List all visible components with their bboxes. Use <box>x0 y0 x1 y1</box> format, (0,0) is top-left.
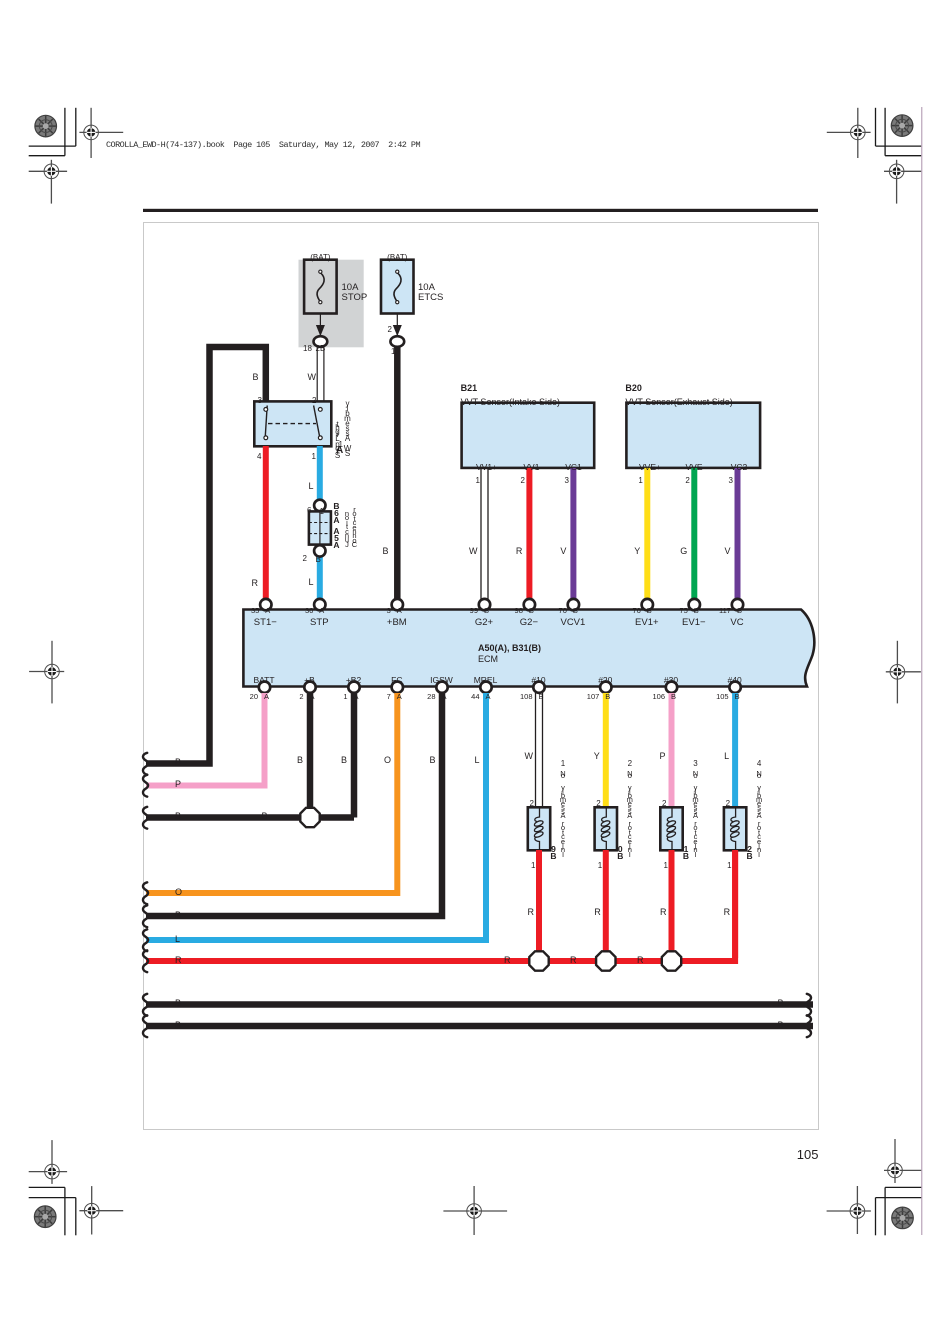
injector 2 pin 2 <box>596 800 600 809</box>
wire color label W <box>308 373 317 383</box>
ECM top pin ring STP <box>314 599 325 610</box>
wire color label B (+BM wire) <box>382 547 388 557</box>
wire L ECM to injector 4 <box>732 693 738 807</box>
ECM bottom pin number 7 <box>387 693 391 701</box>
splice octagon injector 3 <box>662 951 681 970</box>
registration mark top-right B <box>884 160 921 204</box>
injector 3 label Assembly (vertical) <box>692 786 698 818</box>
wire color label W (B21) <box>469 547 478 557</box>
ECM top pin letter B (G2+) <box>484 607 489 615</box>
wire Y B20 pin 1 <box>644 468 650 600</box>
wire color label R (bus 1) <box>504 956 511 966</box>
ECM top pin number 117 (VC) <box>719 607 731 615</box>
ECM bottom pin number 2 <box>299 693 303 701</box>
switch pin 2 <box>312 397 316 406</box>
pin number 2 (B21) <box>520 477 524 486</box>
wire B splice bus to left edge (black) <box>146 814 354 821</box>
injector 2 label Assembly (vertical) <box>627 786 633 818</box>
wire color label O (left edge) <box>175 888 182 898</box>
ECM signal name G2&#8722; <box>520 618 538 628</box>
wire color label B (+B wire) <box>297 756 303 766</box>
wire color label L (injector 4 feed) <box>724 752 729 762</box>
wire color label B (bus lower right) <box>778 1021 784 1031</box>
injector 3 label No. <box>693 773 698 777</box>
wire color label R (left edge) <box>175 956 182 966</box>
wire R injector common bus (red) <box>146 850 735 961</box>
ECM bottom pin letter A <box>485 693 490 701</box>
ECM bottom pin number 1 <box>343 693 347 701</box>
injector 4 coil symbol <box>730 808 740 850</box>
B21 pin name VV1 <box>523 463 539 472</box>
wire B ECM IGSW to left edge (black) <box>146 693 442 916</box>
continuation arc left (switch feed B) <box>143 753 148 775</box>
injector 2 number label <box>628 762 632 766</box>
label 10A STOP <box>342 283 368 304</box>
label (BAT) for STOP fuse <box>310 254 330 263</box>
junction connector pin 2 <box>303 555 307 564</box>
wire R switch to ECM ST1- (red) <box>263 446 269 600</box>
injector 1 pin 1 <box>531 862 535 871</box>
title rule <box>143 209 818 212</box>
connector code 1 (switch) <box>339 441 343 450</box>
ECM bottom pin name +B2 <box>346 676 361 685</box>
ECM bottom pin letter B <box>735 693 740 701</box>
header file info text <box>106 141 420 150</box>
wire R injector 2 to splice (red) <box>603 850 609 953</box>
ECM bottom pin number 20 <box>250 693 258 701</box>
wire color label B (switch feed left) <box>175 758 181 768</box>
injector 1 number label <box>561 762 565 766</box>
wire color label W (injector 1 feed) <box>525 752 534 762</box>
junction connector code A5A (vertical bold) <box>333 528 339 550</box>
ECM top pin ring EV1&#8722; <box>689 599 700 610</box>
B20 sensor body <box>626 403 760 468</box>
wire V B20 pin 3 <box>735 468 741 600</box>
ECM bottom pin letter B <box>538 693 543 701</box>
ECM bottom pin ring #10 <box>533 682 544 693</box>
ECM top pin ring VCV1 <box>568 599 579 610</box>
ECM top pin ring G2&#8722; <box>524 599 535 610</box>
wire B from ETCS to ECM +BM (black) <box>394 347 401 600</box>
splice octagon injector 1 <box>529 951 548 970</box>
pin number 1 (B21) <box>476 477 480 486</box>
ECM signal name EV1+ <box>635 618 659 628</box>
ECM top pin ring EV1+ <box>642 599 653 610</box>
ECM top pin number 3 (+BM) <box>387 607 391 615</box>
switch blade right <box>314 406 320 438</box>
registration mark bottom-right B <box>884 1139 921 1183</box>
ECM top pin number 36 (STP) <box>305 607 313 615</box>
label Junction (vertical) <box>345 512 349 547</box>
ECM bottom pin ring BATT <box>259 682 270 693</box>
continuation arc right (ground bus lower) <box>806 1015 811 1037</box>
printer colour control dot top-left <box>35 115 57 137</box>
trim marks bottom-left <box>29 1187 76 1235</box>
wire W B21 pin 1 (white) <box>481 468 488 600</box>
trim marks bottom-right <box>876 1187 922 1235</box>
arrowhead ETCS fuse output <box>393 325 402 336</box>
ECM name label <box>478 655 498 665</box>
ECM bottom pin number 107 <box>587 693 600 701</box>
injector 4 connector code B2 (vertical bold) <box>747 846 753 859</box>
ECM bottom pin ring MREL <box>480 682 491 693</box>
wire color label B (left edge IGSW) <box>175 911 181 921</box>
component name Stop Light (vertical) <box>335 423 340 457</box>
wire color label B (at splice) <box>261 812 267 822</box>
continuation arc left (ground bus upper) <box>143 994 148 1016</box>
ECM top pin number 35 (ST1&#8722;) <box>251 607 259 615</box>
ECM bottom pin letter A <box>441 693 446 701</box>
B20 pin name VVE <box>685 463 702 472</box>
registration mark right-center <box>886 641 921 704</box>
ECM bottom pin number 106 <box>652 693 665 701</box>
switch pin circles <box>264 408 322 440</box>
wire color label Y (injector 2 feed) <box>594 752 600 762</box>
continuation arc left (ground bus lower) <box>143 1015 148 1037</box>
ECM bottom pin name BATT <box>253 676 274 685</box>
ECM bottom pin number 44 <box>471 693 479 701</box>
wire L switch to junction connector (blue) <box>317 446 323 500</box>
wire B stop light switch feed (black) <box>146 347 266 764</box>
gray backdrop behind STOP fuse <box>299 260 364 348</box>
injector 4 label No. <box>756 773 761 777</box>
ECM signal name G2+ <box>475 618 493 628</box>
wire color label V (B20) <box>724 547 730 557</box>
ECM top pin ring VC <box>732 599 743 610</box>
B20 code label <box>625 384 642 394</box>
trim marks top-right <box>876 108 922 156</box>
switch linkage dashed line <box>268 423 316 425</box>
ECM bottom pin ring FC <box>392 682 403 693</box>
wire color label B (bus lower left) <box>175 1021 181 1031</box>
registration mark top-left B <box>29 160 67 204</box>
wire color label B (left edge bus) <box>175 812 181 822</box>
B20 pin name VC2 <box>731 463 748 472</box>
ECM bottom pin number 105 <box>716 693 729 701</box>
injector 2 connector code B0 (vertical bold) <box>617 846 623 859</box>
continuation arc left (MREL L) <box>143 929 148 951</box>
ECM bottom pin ring #30 <box>666 682 677 693</box>
wire R injector 3 to splice (red) <box>669 850 675 953</box>
fuse ETCS 10A <box>381 260 414 314</box>
ECM bottom pin number 28 <box>427 693 435 701</box>
injector 1 label Assembly (vertical) <box>560 786 566 818</box>
wire W stop fuse to switch (white, outline) <box>317 347 324 402</box>
splice octagon injector 2 <box>596 951 615 970</box>
B21 name label <box>461 398 560 408</box>
ECM top pin letter A (+BM) <box>397 607 402 615</box>
wire color label R (bus 3) <box>637 956 644 966</box>
continuation arc left (IGSW B) <box>143 905 148 927</box>
ECM top pin number 98 (G2&#8722;) <box>515 607 523 615</box>
pin label 18 <box>303 345 312 354</box>
pin label 1 at ETCS oval <box>391 348 395 357</box>
wire color label B (IGSW wire) <box>429 756 435 766</box>
wire color label L (upper STP) <box>308 482 313 492</box>
label Connector (vertical) <box>352 508 357 548</box>
B21 pin name VV1+ <box>476 463 497 472</box>
continuation arc right (ground bus upper) <box>806 994 811 1016</box>
pin label 2B <box>316 345 326 354</box>
ECM bottom pin number 108 <box>520 693 533 701</box>
ECM top pin number 75 (EV1&#8722;) <box>679 607 687 615</box>
injector 3 number label <box>693 762 697 766</box>
wire O ECM FC to left edge (orange) <box>146 693 397 893</box>
wire R injector 1 to splice (red) <box>536 850 542 953</box>
ECM bottom pin name #10 <box>531 676 545 685</box>
B20 pin name VVE+ <box>639 463 661 472</box>
injector 4 label Injector (vertical) <box>757 822 761 857</box>
injector 1 pin 2 <box>530 800 534 809</box>
ECM top pin letter B (VCV1) <box>573 607 578 615</box>
ECM code label A50(A), B31(B) <box>478 644 541 654</box>
injector 2 coil symbol <box>600 808 610 850</box>
B21 code label <box>461 384 478 394</box>
ECM signal name +BM <box>387 618 407 628</box>
injector 4 number label <box>757 762 761 766</box>
splice octagon +B <box>300 808 319 827</box>
continuation arc left (FC O) <box>143 882 148 904</box>
wire R B21 pin 2 <box>526 468 532 600</box>
B21 pin name VC1 <box>565 463 582 472</box>
wire P ECM to injector 3 <box>669 693 675 807</box>
wire color label Y (B20) <box>634 547 640 557</box>
wire W ECM #10 to injector 1 (white) <box>536 693 543 807</box>
wire color label B (switch feed top) <box>252 373 258 383</box>
junction connector code B6A (vertical bold) <box>333 503 339 525</box>
injector 2 label No. <box>627 773 632 777</box>
ECM bottom pin letter B <box>605 693 610 701</box>
switch pin 4 <box>257 453 261 462</box>
ECM body A50(A) B31(B) <box>243 610 814 687</box>
ECM top pin letter A (ST1&#8722;) <box>265 607 270 615</box>
ECM top pin letter B (G2&#8722;) <box>529 607 534 615</box>
ECM top pin letter B (EV1+) <box>647 607 652 615</box>
wire color label B (bus upper left) <box>175 999 181 1009</box>
wire color label R (injector 3) <box>660 908 667 918</box>
wire L junction connector to ECM STP (blue) <box>317 557 323 600</box>
ECM bottom pin name #30 <box>664 676 678 685</box>
ECM top pin number 70 (VCV1) <box>559 607 567 615</box>
ECM bottom pin letter B <box>671 693 676 701</box>
ECM bottom pin ring #40 <box>729 682 740 693</box>
page trim line right <box>921 107 923 1235</box>
wire color label L (MREL wire) <box>474 756 479 766</box>
ECM bottom pin ring IGSW <box>436 682 447 693</box>
ECM bottom pin name IGSW <box>430 676 453 685</box>
registration mark bottom-center <box>443 1186 507 1235</box>
ECM bottom pin name #40 <box>728 676 742 685</box>
injector 3 coil symbol <box>666 808 676 850</box>
injector 1 coil symbol <box>534 808 544 850</box>
wire L ECM MREL to left edge (blue) <box>146 693 486 940</box>
wire P ECM BATT to left edge (pink) <box>146 693 265 786</box>
wire color label L (lower STP) <box>308 578 313 588</box>
wire from STOP fuse to connector <box>319 314 321 339</box>
injector 3 connector code B1 (vertical bold) <box>683 846 689 859</box>
component name SW Assembly (vertical) <box>344 401 352 456</box>
ECM bottom pin name FC <box>391 676 402 685</box>
injector 1 label Injector (vertical) <box>561 822 565 857</box>
ECM bottom pin letter A <box>309 693 314 701</box>
continuation arc left (ground B) <box>143 807 148 829</box>
ECM bottom pin letter A <box>353 693 358 701</box>
ECM top pin ring G2+ <box>479 599 490 610</box>
wire color label B (bus upper right) <box>778 999 784 1009</box>
stop light switch body <box>254 401 331 446</box>
ECM top pin letter B (VC) <box>737 607 742 615</box>
injector 3 label Injector (vertical) <box>693 822 697 857</box>
ECM signal name VCV1 <box>560 618 585 628</box>
switch pin 1 <box>312 453 316 462</box>
ECM bottom pin letter A <box>397 693 402 701</box>
label (BAT) for ETCS fuse <box>387 254 407 263</box>
B20 name label <box>625 398 732 408</box>
injector 4 pin 2 <box>726 800 730 809</box>
injector 4 label Assembly (vertical) <box>756 786 762 818</box>
wire color label R (bus 2) <box>570 956 577 966</box>
ECM top pin number 99 (G2+) <box>470 607 478 615</box>
wire color label O (FC wire) <box>384 756 391 766</box>
wire Y ECM to injector 2 <box>603 693 609 807</box>
B21 sensor body <box>462 403 595 468</box>
injector 1 label No. <box>560 773 565 777</box>
page number 105 <box>797 1148 819 1162</box>
injector 4 pin 1 <box>727 862 731 871</box>
injector 3 pin 1 <box>664 862 668 871</box>
junction connector pin 1 <box>320 508 324 517</box>
registration mark left-center <box>29 641 64 704</box>
printer colour control dot top-right <box>891 115 913 137</box>
wire color label R (injector 1) <box>528 908 535 918</box>
ECM bottom pin name MREL <box>474 676 498 685</box>
pin label 2 at ETCS output <box>388 326 392 335</box>
registration mark bottom-left A <box>79 1186 123 1234</box>
junction connector pin 6 <box>307 507 311 516</box>
pin number 2 (B20) <box>685 477 689 486</box>
junction connector body <box>309 511 331 544</box>
injector 1 connector code B9 (vertical bold) <box>550 846 556 859</box>
printer colour control dot bottom-right <box>892 1207 914 1229</box>
junction connector pin B <box>316 556 321 565</box>
injector 2 pin 1 <box>598 862 602 871</box>
injector 3 pin 2 <box>662 800 666 809</box>
ECM signal name VC <box>730 618 743 628</box>
injector 1 body <box>528 807 550 850</box>
injector 2 body <box>595 807 617 850</box>
wire color label P (left edge) <box>175 780 181 790</box>
label 10A ETCS <box>418 283 443 304</box>
ECM signal name STP <box>310 618 328 628</box>
wire color label B (+B2 wire) <box>341 756 347 766</box>
wire color label P (injector 3 feed) <box>659 752 665 762</box>
trim marks top-left <box>29 108 76 156</box>
ECM bottom pin letter A <box>264 693 269 701</box>
ECM signal name EV1&#8722; <box>682 618 706 628</box>
registration mark top-left A <box>79 108 123 158</box>
wire B ECM +B down (black) <box>307 693 314 818</box>
ECM top pin ring ST1&#8722; <box>260 599 271 610</box>
ECM top pin letter A (STP) <box>319 607 324 615</box>
registration mark top-right A <box>827 108 871 158</box>
switch pin 3 <box>258 397 262 406</box>
ECM top pin letter B (EV1&#8722;) <box>694 607 699 615</box>
pin number 1 (B20) <box>638 477 642 486</box>
arrowhead STOP fuse output <box>316 325 325 336</box>
continuation arc left (BATT P) <box>143 775 148 797</box>
registration mark bottom-right A <box>827 1186 871 1234</box>
junction connector bottom ring <box>314 545 325 556</box>
wire color label R (injector 4) <box>724 908 731 918</box>
ground bus B upper (black) <box>146 1001 813 1008</box>
connector oval STOP output <box>314 336 328 347</box>
ECM bottom pin ring +B2 <box>348 682 359 693</box>
pin number 3 (B20) <box>729 477 733 486</box>
ECM signal name ST1&#8722; <box>254 618 277 628</box>
wire color label R (ST1-) <box>252 579 259 589</box>
injector 2 label Injector (vertical) <box>628 822 632 857</box>
diagram border <box>144 223 819 1130</box>
printer colour control dot bottom-left <box>34 1206 56 1228</box>
connector code A1 (switch) <box>336 445 343 456</box>
wire color label R (B21) <box>516 547 523 557</box>
ECM bottom pin ring +B <box>304 682 315 693</box>
wire G B20 pin 2 <box>691 468 697 600</box>
wire B ECM +B2 down (black) <box>351 693 358 818</box>
ECM top pin ring +BM <box>392 599 403 610</box>
injector 4 body <box>724 807 746 850</box>
ground bus B lower (black) <box>146 1023 813 1030</box>
wire color label R (injector 2) <box>594 908 601 918</box>
connector oval ETCS output <box>390 336 404 347</box>
junction connector top ring <box>314 500 325 511</box>
ECM top pin number 76 (EV1+) <box>632 607 640 615</box>
ECM bottom pin name #20 <box>598 676 612 685</box>
wire V B21 pin 3 <box>570 468 576 600</box>
wire color label V (B21) <box>560 547 566 557</box>
registration mark bottom-left B <box>29 1140 67 1184</box>
wire from ETCS fuse to connector <box>396 314 398 339</box>
wire color label L (left edge) <box>175 935 180 945</box>
wire color label G (B20) <box>680 547 687 557</box>
pin number 3 (B21) <box>564 477 568 486</box>
injector 3 body <box>660 807 682 850</box>
fuse STOP 10A <box>304 260 337 314</box>
wire R injector 4 down (red) <box>732 850 738 958</box>
switch blade left <box>265 406 267 438</box>
continuation arc left (injector R) <box>143 950 148 972</box>
ECM bottom pin name +B <box>304 676 315 685</box>
ECM bottom pin ring #20 <box>600 682 611 693</box>
